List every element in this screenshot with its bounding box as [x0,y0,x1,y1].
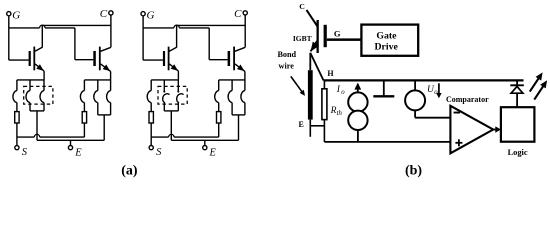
svg-text:E: E [209,147,217,158]
svg-text:IGBT: IGBT [293,34,312,43]
svg-text:S: S [156,147,162,158]
svg-text:C: C [299,2,305,11]
svg-text:Gate: Gate [376,31,397,42]
svg-text:wire: wire [279,61,295,70]
svg-text:C: C [234,8,242,20]
svg-text:th: th [337,110,343,117]
svg-text:Drive: Drive [374,42,398,53]
svg-text:S: S [22,147,28,158]
svg-text:R: R [330,106,337,116]
svg-text:G: G [12,10,20,22]
svg-text:E: E [74,147,82,158]
svg-text:H: H [327,69,334,78]
svg-text:(a): (a) [121,164,138,179]
svg-text:o: o [341,89,345,96]
svg-text:(b): (b) [405,163,422,178]
svg-text:Bond: Bond [277,50,296,59]
svg-text:G: G [334,29,341,39]
svg-text:o: o [434,89,438,96]
svg-text:Logic: Logic [508,148,528,157]
svg-text:C: C [100,8,108,20]
svg-text:G: G [147,10,155,22]
svg-text:E: E [299,120,304,129]
svg-text:Comparator: Comparator [446,95,489,104]
